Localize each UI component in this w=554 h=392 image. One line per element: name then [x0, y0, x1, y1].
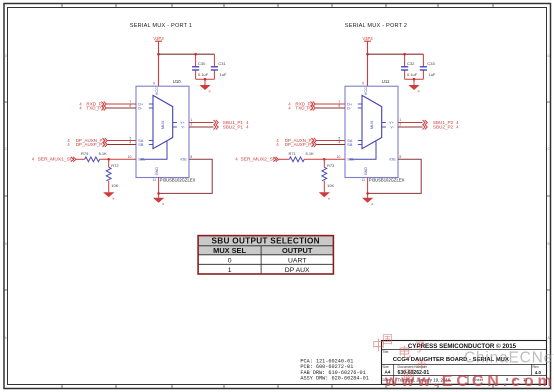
- svg-text:www.ECCN.com: www.ECCN.com: [384, 373, 554, 390]
- svg-text:5.1K: 5.1K: [306, 151, 315, 156]
- svg-text:C30: C30: [198, 61, 206, 66]
- svg-text:5.1K: 5.1K: [99, 151, 108, 156]
- svg-text:1: 1: [228, 267, 232, 274]
- svg-text:SBU OUTPUT SELECTION: SBU OUTPUT SELECTION: [212, 237, 320, 246]
- svg-text:B: B: [5, 242, 7, 246]
- svg-text:4: 4: [67, 142, 70, 147]
- svg-text:R73: R73: [327, 163, 335, 168]
- svg-text:4: 4: [235, 157, 238, 162]
- svg-text:ChinaECNet: ChinaECNet: [464, 349, 554, 366]
- svg-text:TXD_P2: TXD_P2: [295, 106, 313, 111]
- svg-text:4: 4: [32, 157, 35, 162]
- svg-text:市: 市: [416, 357, 427, 371]
- svg-text:OUTPUT: OUTPUT: [282, 246, 313, 255]
- svg-text:C33: C33: [427, 61, 435, 66]
- svg-text:SBU2_P1: SBU2_P1: [223, 125, 244, 130]
- svg-text:DP_AUXP_P2: DP_AUXP_P2: [285, 142, 315, 147]
- svg-text:SER_MUX2_SEL: SER_MUX2_SEL: [241, 157, 280, 163]
- svg-text:国: 国: [382, 333, 393, 346]
- svg-text:SBU2_P2: SBU2_P2: [433, 125, 454, 130]
- svg-text:U10: U10: [173, 79, 181, 84]
- svg-text:ASSY DRW: 620-60284-01: ASSY DRW: 620-60284-01: [300, 376, 369, 382]
- svg-text:4: 4: [276, 142, 279, 147]
- svg-text:4: 4: [456, 125, 459, 130]
- svg-text:R79: R79: [81, 151, 89, 156]
- svg-text:U11: U11: [382, 79, 390, 84]
- svg-text:SERIAL MUX - PORT 1: SERIAL MUX - PORT 1: [130, 23, 192, 29]
- svg-text:子: 子: [414, 340, 426, 354]
- svg-text:0: 0: [228, 257, 232, 264]
- svg-text:MUX SEL: MUX SEL: [213, 246, 246, 255]
- svg-text:DP AUX: DP AUX: [285, 267, 310, 274]
- svg-text:SERIAL MUX - PORT 2: SERIAL MUX - PORT 2: [345, 23, 407, 29]
- svg-text:Size: Size: [383, 365, 389, 369]
- svg-text:TXD_P1: TXD_P1: [86, 106, 104, 111]
- svg-text:4: 4: [288, 106, 291, 111]
- svg-text:R72: R72: [111, 163, 119, 168]
- svg-text:C31: C31: [218, 61, 226, 66]
- svg-text:10K: 10K: [327, 183, 334, 188]
- svg-text:DP_AUXP_P1: DP_AUXP_P1: [76, 142, 106, 147]
- svg-text:C32: C32: [407, 61, 415, 66]
- svg-text:10K: 10K: [111, 183, 118, 188]
- svg-text:电: 电: [398, 345, 411, 360]
- svg-text:UART: UART: [288, 257, 306, 264]
- svg-text:B: B: [548, 242, 550, 246]
- svg-text:SER_MUX1_SEL: SER_MUX1_SEL: [38, 157, 77, 163]
- svg-text:R71: R71: [289, 151, 297, 156]
- svg-text:4: 4: [79, 106, 82, 111]
- svg-text:4: 4: [246, 125, 249, 130]
